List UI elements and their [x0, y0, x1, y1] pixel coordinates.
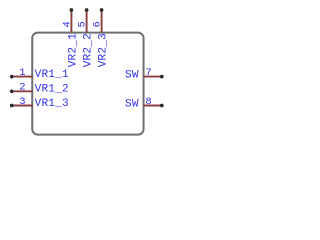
svg-text:VR2_3: VR2_3 — [98, 33, 110, 67]
svg-text:VR2_2: VR2_2 — [83, 33, 95, 67]
svg-text:VR2_1: VR2_1 — [67, 33, 79, 67]
svg-text:VR1_2: VR1_2 — [35, 84, 69, 96]
svg-text:8: 8 — [145, 96, 151, 108]
svg-text:VR1_1: VR1_1 — [35, 69, 69, 81]
svg-text:VR1_3: VR1_3 — [35, 98, 69, 110]
svg-text:4: 4 — [62, 21, 74, 27]
svg-text:2: 2 — [19, 82, 25, 94]
svg-text:3: 3 — [19, 96, 25, 108]
svg-text:7: 7 — [145, 67, 151, 79]
svg-text:SW: SW — [125, 70, 139, 82]
svg-text:SW: SW — [125, 99, 139, 111]
svg-text:5: 5 — [77, 21, 89, 27]
svg-text:1: 1 — [19, 67, 25, 79]
svg-text:6: 6 — [92, 21, 104, 27]
